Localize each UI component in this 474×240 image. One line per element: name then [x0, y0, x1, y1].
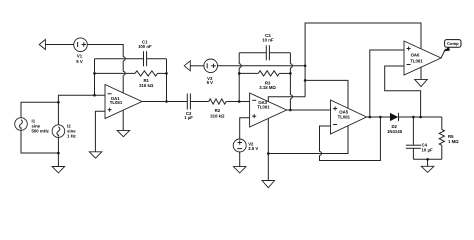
wire I2 bottom to ground: [57, 137, 59, 166]
net flag Comp: [443, 40, 461, 52]
wire OA1 inverting input: [58, 95, 105, 125]
wire arrow to V1: [45, 44, 74, 46]
node junction left rail / R3: [238, 72, 241, 75]
op-amp OA5 TL081: [331, 100, 367, 134]
node junction left rail / OA1 minus: [93, 94, 96, 97]
wire supply branch to OA5 V+: [305, 80, 348, 108]
wire right rail of C1/R1: [166, 59, 168, 102]
node junction bottom rail: [57, 152, 60, 155]
node junction OA6 plus branch: [369, 116, 372, 119]
node junction V3 on supply vertical: [304, 65, 307, 68]
wire right rail of C3/R3: [290, 53, 292, 110]
node junction right rail / R1: [165, 72, 168, 75]
resistor R3: [239, 71, 290, 90]
svg-text:TL081: TL081: [257, 104, 270, 109]
wire OA6 minus input feedback from detector node: [385, 66, 421, 117]
wire OA3 output to OA5 plus input: [287, 109, 331, 111]
capacitor C3: [239, 33, 290, 60]
ground V2: [233, 167, 246, 173]
node junction OA5 supply branch: [304, 79, 307, 82]
wire OA6 V- to ground: [420, 67, 422, 79]
svg-text:318 kΩ: 318 kΩ: [139, 83, 154, 88]
wire OA6 output to flag: [441, 49, 446, 58]
wire V2 to OA3 plus input: [240, 118, 250, 139]
ground OA1 plus input: [89, 152, 102, 158]
capacitor C2: [184, 94, 209, 121]
wire OA5 minus feedback loop: [320, 117, 381, 161]
svg-text:10 nF: 10 nF: [262, 38, 274, 43]
node junction R2 / C3R3 rail: [238, 100, 241, 103]
resistor R5: [439, 117, 459, 159]
wire OA5 output row to diode: [367, 116, 391, 118]
svg-text:1N4148: 1N4148: [387, 129, 403, 134]
current source I2: [52, 124, 76, 139]
node junction OA6 minus branch: [419, 116, 422, 119]
svg-text:TL081: TL081: [410, 58, 423, 63]
ground OA6 V-: [415, 79, 428, 86]
diode D2 1N4148: [387, 113, 442, 134]
svg-text:R2: R2: [215, 108, 221, 113]
wire OA1 output row: [142, 101, 187, 103]
wire OA1 V- to ground: [122, 110, 124, 130]
wire supply branch to OA3 V+ (hops right rail): [268, 97, 305, 102]
svg-text:Comp: Comp: [447, 41, 459, 46]
wire V- rail to OA5 V- (hops feedback vertical): [268, 126, 348, 154]
svg-text:100 nF: 100 nF: [138, 44, 152, 49]
wire I1 bottom branch: [21, 130, 58, 153]
ground below I2: [52, 167, 65, 173]
svg-text:TL081: TL081: [338, 115, 351, 120]
op-amp OA1 TL081: [105, 85, 142, 119]
svg-text:1 MΩ: 1 MΩ: [448, 139, 459, 144]
op-amp OA6 TL081: [404, 41, 441, 75]
node junction right rail / OA3 output: [289, 109, 292, 112]
wire detector bottom rail: [413, 158, 441, 160]
net flag arrow for V3: [184, 61, 190, 71]
wire arrow to V3: [191, 65, 204, 67]
resistor R2: [209, 99, 250, 119]
node junction right rail / R3: [289, 72, 292, 75]
node junction C4 branch: [412, 116, 415, 119]
capacitor C4: [406, 117, 433, 159]
current source I1: [15, 118, 49, 134]
svg-text:10 µF: 10 µF: [422, 147, 433, 152]
voltage source V2: [233, 139, 258, 152]
wire V3 supply vertical and top rail to OA6 V+: [305, 23, 421, 97]
wire left rail of C3/R3: [239, 53, 241, 102]
node junction feedback / output: [379, 116, 382, 119]
ground OA1 V-: [117, 130, 130, 136]
wire OA3 V- to ground: [267, 118, 269, 180]
ground detector: [421, 166, 434, 172]
wire V1 to OA1 V+: [88, 45, 126, 93]
capacitor C1: [95, 40, 167, 67]
wire OA5 output up to OA6 plus input: [370, 50, 404, 117]
node junction left rail / R1: [93, 72, 96, 75]
node junction I2 top: [57, 101, 60, 104]
node junction right rail / OA1 output: [165, 100, 168, 103]
voltage source V1: [74, 38, 88, 64]
svg-text:2.5 V: 2.5 V: [248, 146, 258, 151]
svg-text:1 µF: 1 µF: [184, 115, 193, 120]
wire V3 to supply rail (hops over C3R3 rails): [217, 65, 305, 67]
net flag arrow for V1: [39, 40, 45, 50]
svg-text:5 V: 5 V: [76, 59, 83, 64]
svg-text:TL081: TL081: [110, 100, 123, 105]
wire left rail of C1/R1: [94, 59, 96, 95]
svg-text:V1: V1: [77, 54, 83, 59]
wire I1 top branch: [21, 102, 58, 117]
wire V2 to ground: [239, 152, 241, 167]
ground OA3 V-: [262, 181, 275, 188]
svg-text:318 kΩ: 318 kΩ: [210, 114, 225, 119]
svg-text:500 mHz: 500 mHz: [32, 129, 49, 134]
svg-text:5 V: 5 V: [207, 80, 214, 85]
wire rail to ground: [426, 158, 429, 166]
node junction V- rail: [267, 152, 270, 155]
wire OA1 plus input to ground: [95, 111, 105, 152]
resistor R1: [95, 71, 167, 88]
svg-text:R1: R1: [143, 78, 149, 83]
svg-text:1 Hz: 1 Hz: [67, 134, 76, 139]
voltage source V3: [204, 59, 218, 85]
op-amp OA3 TL081: [250, 93, 287, 127]
svg-text:3.18 MΩ: 3.18 MΩ: [259, 85, 276, 90]
svg-text:OA6: OA6: [411, 53, 420, 58]
